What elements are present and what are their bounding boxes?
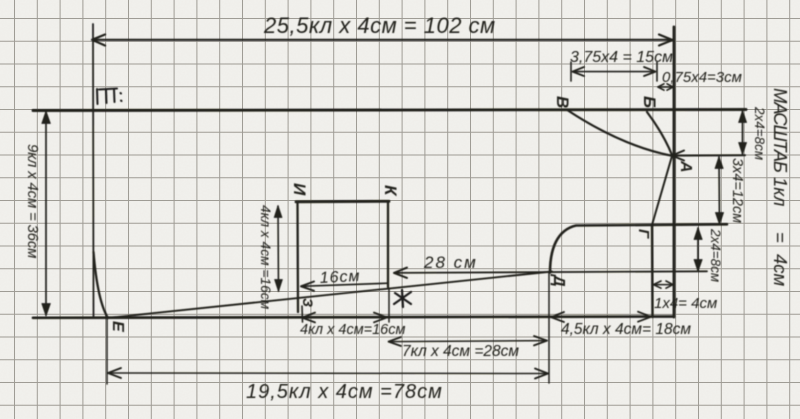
svg-text:З: З xyxy=(300,298,316,307)
svg-text:7кл х 4см =28см: 7кл х 4см =28см xyxy=(402,343,519,360)
wire curve В to А xyxy=(568,111,672,156)
svg-text:3х4=12см: 3х4=12см xyxy=(729,158,745,223)
dimension 4,5кл arrowheads on bottom line xyxy=(551,312,564,322)
wire curve Б to А xyxy=(647,112,672,155)
box К right edge xyxy=(387,201,389,287)
svg-text:3,75х4 = 15см: 3,75х4 = 15см xyxy=(570,49,673,66)
wire bottom line xyxy=(33,317,674,318)
node В tick xyxy=(570,62,572,81)
svg-text:И: И xyxy=(290,183,309,196)
wire diagonal Е to Д xyxy=(107,272,552,319)
node Ж: label xyxy=(97,89,122,105)
svg-text:4кл х 4см =16см: 4кл х 4см =16см xyxy=(258,205,273,310)
svg-text:1х4= 4см: 1х4= 4см xyxy=(654,295,717,312)
wire hem curve to Е xyxy=(94,252,109,318)
svg-text:Д: Д xyxy=(550,273,567,287)
svg-text:2х4=8см: 2х4=8см xyxy=(752,106,767,160)
svg-text:4кл х 4см=16см: 4кл х 4см=16см xyxy=(300,322,405,338)
dimension 3,75 arrow xyxy=(573,71,655,73)
svg-text:25,5кл х 4см = 102 см: 25,5кл х 4см = 102 см xyxy=(263,13,496,38)
dimension 4кл bottom arrowheads xyxy=(302,313,315,323)
svg-text:Г: Г xyxy=(635,229,652,239)
dimension 25,5кл arrow line xyxy=(93,39,672,41)
svg-text:28 см: 28 см xyxy=(423,253,478,272)
svg-text:19,5кл х 4см =78см: 19,5кл х 4см =78см xyxy=(246,381,443,403)
dimension 19,5кл arrow xyxy=(108,372,548,375)
svg-text:9кл х 4см = 36см: 9кл х 4см = 36см xyxy=(24,144,41,258)
svg-text:Б: Б xyxy=(640,96,659,108)
dimension 2х4=8см top arrow xyxy=(742,111,744,154)
svg-text:К: К xyxy=(381,185,400,197)
svg-text:1кл: 1кл xyxy=(770,177,791,207)
svg-text:2х4=8см: 2х4=8см xyxy=(708,228,723,282)
node З tick xyxy=(301,306,304,322)
dimension 9кл arrow xyxy=(45,112,47,315)
dimension 4кл box arrow xyxy=(277,206,280,291)
wire 28см line at y=272 xyxy=(394,271,707,273)
node Б dim tick xyxy=(656,62,658,81)
wire line А horizontal xyxy=(672,154,745,156)
node Е vertical below xyxy=(106,318,108,384)
svg-text:МАСШТАБ: МАСШТАБ xyxy=(770,88,791,173)
dimension 7кл arrow xyxy=(389,341,547,342)
dimension 0,75 arrow xyxy=(658,86,673,88)
svg-text:4см: 4см xyxy=(770,254,791,287)
wire А to Г diagonal xyxy=(652,156,672,225)
svg-text:4,5кл х 4см= 18см: 4,5кл х 4см= 18см xyxy=(561,321,691,338)
svg-text:Е: Е xyxy=(109,321,126,333)
wire top construction line Ж-Б xyxy=(33,110,746,111)
node К tick below xyxy=(388,288,390,322)
node Д vertical below xyxy=(548,272,550,383)
dimension 2х4=8см lower arrow xyxy=(697,228,699,271)
node Г vertical line xyxy=(651,225,654,317)
dimension 16см line xyxy=(301,283,388,286)
svg-text:=: = xyxy=(770,232,791,243)
node Ж vertical line xyxy=(92,24,95,318)
dimension 3х4=12см arrow xyxy=(718,157,721,224)
svg-text:0,75х4=3см: 0,75х4=3см xyxy=(662,69,742,86)
svg-text:А: А xyxy=(677,160,694,173)
node asterisk xyxy=(394,290,411,307)
node Б vertical line xyxy=(673,27,676,317)
box И К top xyxy=(296,200,389,203)
svg-text:16см: 16см xyxy=(319,268,361,287)
box И left edge xyxy=(296,202,299,312)
svg-text:В: В xyxy=(553,96,572,108)
dimension 1х4 arrow xyxy=(654,284,674,286)
wire Д curve and Г horizontal xyxy=(550,224,727,272)
